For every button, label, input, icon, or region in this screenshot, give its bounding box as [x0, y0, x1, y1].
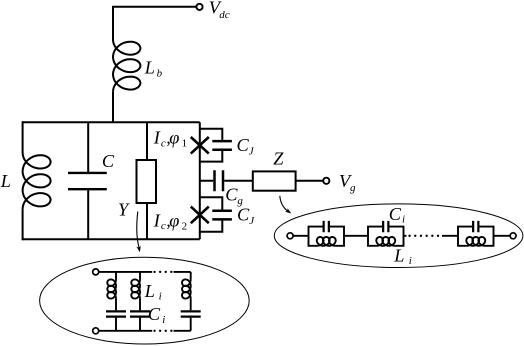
branch 3: inductor L_i — [190, 272, 192, 280]
label L_i ellipse2 — [393, 245, 412, 267]
svg-text:b: b — [157, 68, 163, 80]
wire left edge — [22, 121, 24, 240]
svg-text:g: g — [237, 195, 243, 207]
svg-text:2: 2 — [182, 220, 188, 232]
capacitor C — [87, 122, 89, 239]
capacitor C_J bottom — [200, 197, 223, 232]
svg-text:dc: dc — [219, 9, 230, 21]
label I_c,phi_2 — [153, 210, 187, 232]
josephson junction Ic,phi2 — [191, 207, 209, 224]
svg-text:I: I — [153, 128, 161, 148]
LC block 2: capacitor — [383, 221, 388, 232]
LC block 2: inductor — [376, 237, 395, 246]
terminal top left — [93, 269, 99, 275]
wire rail segments — [293, 235, 510, 237]
branch 2: capacitor C_i — [139, 298, 141, 331]
svg-text:C: C — [237, 135, 250, 155]
svg-text:i: i — [409, 255, 412, 267]
svg-text:C: C — [148, 304, 161, 324]
svg-text:g: g — [350, 182, 356, 194]
inductor L — [23, 152, 51, 209]
label C_i ellipse2 — [389, 204, 405, 226]
svg-text:L: L — [0, 171, 11, 191]
svg-text:C: C — [102, 151, 115, 171]
inductor L_b — [113, 40, 140, 92]
wire bottom rail — [23, 238, 200, 240]
zoom ellipse array Z — [274, 204, 523, 268]
LC block 3: inductor — [466, 237, 485, 246]
wire rail dots — [410, 235, 440, 237]
LC block 1: capacitor — [324, 221, 329, 232]
terminal bottom left — [93, 328, 99, 334]
wire V_dc feed — [113, 7, 196, 41]
svg-text:Z: Z — [273, 149, 284, 169]
svg-text:1: 1 — [182, 138, 188, 150]
label V_dc — [209, 0, 230, 21]
LC block 3: capacitor — [473, 221, 478, 232]
svg-text:c: c — [161, 220, 166, 232]
LC block 1: inductor — [317, 237, 336, 246]
label C_i ellipse1 — [148, 304, 165, 326]
branch 3: capacitor C_i — [190, 298, 192, 331]
svg-text:L: L — [393, 245, 404, 265]
capacitor C_J top — [200, 129, 223, 162]
label C_J bottom — [237, 205, 255, 228]
wire ladder top rail — [99, 271, 152, 273]
svg-text:L: L — [144, 58, 155, 78]
terminal V_dc — [196, 4, 202, 10]
branch 1: inductor L_i — [115, 272, 117, 280]
wire L_b to loop — [112, 92, 114, 122]
svg-text:C: C — [225, 184, 238, 204]
wire ladder bottom rail — [99, 330, 152, 332]
label L_b — [144, 58, 163, 80]
LC block 3: frame — [458, 227, 494, 246]
wire right edge — [199, 122, 201, 239]
svg-text:φ: φ — [169, 210, 179, 230]
label V_g — [339, 171, 356, 194]
terminal V_g — [323, 178, 329, 184]
label I_c,phi_1 — [153, 128, 187, 150]
label C_g — [225, 184, 243, 207]
svg-text:i: i — [402, 213, 405, 225]
capacitor C_g — [200, 180, 253, 182]
branch 2: inductor L_i — [139, 272, 141, 280]
label L_i ellipse1 — [144, 281, 162, 303]
impedance Z box — [253, 171, 296, 190]
svg-text:C: C — [389, 204, 402, 224]
arrow Y to zoom ellipse — [137, 212, 139, 249]
zoom ellipse array Y — [40, 257, 250, 344]
svg-text:L: L — [144, 281, 155, 301]
svg-text:c: c — [161, 137, 166, 149]
svg-text:φ: φ — [169, 128, 179, 148]
admittance Y box — [146, 122, 148, 239]
LC block 1: frame — [309, 227, 345, 246]
label C_J top — [237, 135, 255, 157]
arrow Z to zoom ellipse — [280, 196, 288, 212]
wire top rail — [23, 121, 200, 123]
svg-text:C: C — [237, 205, 250, 225]
svg-text:i: i — [162, 314, 165, 326]
svg-text:I: I — [153, 210, 161, 230]
svg-text:i: i — [159, 291, 162, 303]
terminal right — [510, 233, 516, 239]
branch 1: capacitor C_i — [115, 298, 117, 331]
terminal left — [287, 233, 293, 239]
LC block 2: frame — [368, 227, 404, 246]
josephson junction Ic,phi1 — [191, 137, 209, 154]
wire Z to V_g — [296, 180, 324, 182]
